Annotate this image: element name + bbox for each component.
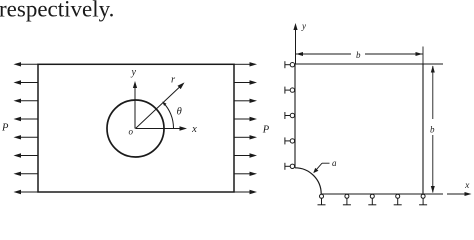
caption text "respectively." [0, 0, 114, 22]
label y (right figure) [301, 21, 306, 31]
label a [332, 158, 337, 168]
label P left [1, 123, 9, 134]
svg-text:o: o [129, 127, 134, 137]
plate rectangle (left figure) [38, 64, 234, 192]
roller left edge 4 [285, 137, 295, 144]
load arrow right 6 [234, 153, 257, 157]
y axis (left figure) [133, 81, 137, 129]
roller left edge 3 [285, 112, 295, 119]
svg-text:x: x [464, 181, 470, 191]
svg-text:respectively.: respectively. [0, 0, 114, 22]
roller left edge 1 [285, 61, 295, 68]
load arrow left 2 [14, 80, 39, 84]
svg-text:r: r [171, 75, 176, 86]
hole circle [107, 100, 164, 157]
roller left edge 5 [285, 163, 295, 170]
roller bottom edge 1 [318, 194, 326, 205]
load arrow right 3 [234, 99, 257, 103]
roller bottom edge 4 [394, 194, 402, 205]
leader arrow and label a [313, 163, 329, 173]
load arrow right 4 [234, 117, 257, 121]
roller left edge 2 [285, 87, 295, 94]
label x (left figure) [191, 124, 197, 135]
load arrow right 2 [234, 80, 257, 84]
load arrow right 8 [234, 190, 257, 194]
right dimension line b [431, 66, 435, 194]
load arrow left 5 [14, 135, 39, 139]
svg-text:b: b [356, 50, 361, 60]
x axis (left figure) [136, 126, 188, 130]
label theta [177, 106, 182, 117]
right edge extension line above square [422, 47, 424, 65]
svg-text:y: y [301, 21, 306, 31]
quarter plate square [295, 64, 443, 194]
svg-text:P: P [1, 123, 9, 134]
load arrow left 4 [14, 117, 39, 121]
roller bottom edge 2 [343, 194, 351, 205]
top dimension line b [296, 52, 423, 56]
label x (right figure) [464, 181, 470, 191]
label y (left figure) [130, 67, 136, 78]
roller bottom edge 5 [419, 194, 427, 205]
hole quarter arc radius a [295, 168, 321, 194]
label o (origin) [129, 127, 134, 137]
label b top [356, 50, 361, 60]
load arrow left 3 [14, 99, 39, 103]
load arrow right 7 [234, 172, 257, 176]
x axis (right figure) [447, 192, 472, 196]
roller bottom edge 3 [368, 194, 376, 205]
svg-text:x: x [191, 124, 197, 135]
svg-text:a: a [332, 158, 337, 168]
label b right [430, 124, 435, 134]
load arrow left 1 [14, 62, 39, 66]
load arrow right 1 [234, 62, 257, 66]
load arrow left 7 [14, 172, 39, 176]
load arrow left 6 [14, 153, 39, 157]
svg-text:b: b [430, 124, 435, 134]
load arrow left 8 [14, 190, 39, 194]
theta angle arc [162, 102, 173, 129]
svg-text:θ: θ [177, 106, 182, 117]
svg-text:y: y [130, 67, 136, 78]
y axis (right figure) [293, 23, 297, 64]
load arrow right 5 [234, 135, 257, 139]
label r [171, 75, 176, 86]
label P right [262, 125, 270, 136]
svg-text:P: P [262, 125, 270, 136]
r axis [136, 82, 185, 128]
